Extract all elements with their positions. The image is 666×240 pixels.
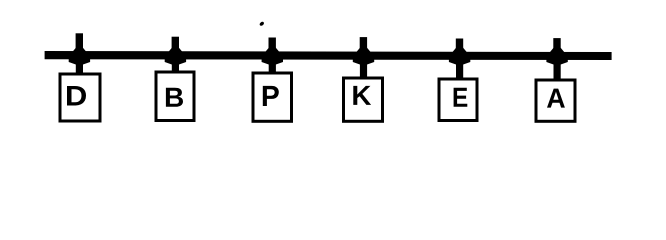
timeline diagram (0, 0, 666, 171)
node E: box (439, 79, 477, 121)
node P: stem (269, 57, 276, 74)
node D: box (60, 74, 100, 121)
node E: tick (456, 39, 463, 60)
node D: tick (76, 33, 83, 59)
node D: stem (76, 57, 83, 75)
node A: stem (554, 57, 561, 80)
node P: tick (269, 38, 276, 60)
node K: arrowhead (353, 44, 374, 65)
node A: tick (553, 38, 560, 59)
node P: arrowhead (262, 44, 283, 65)
node B: label (166, 88, 183, 107)
node A: box (536, 80, 575, 121)
node D: arrowhead (69, 44, 90, 65)
node K: tick (360, 37, 367, 59)
node E: label (454, 88, 468, 107)
node P: label (263, 86, 279, 106)
node A: arrowhead (546, 44, 567, 65)
wire: main timeline (45, 51, 612, 60)
stray ink dot (259, 21, 265, 27)
node B: arrowhead (165, 44, 186, 65)
node K: label (353, 86, 371, 105)
node A: label (547, 89, 565, 108)
node K: box (344, 78, 383, 121)
node D: label (67, 86, 86, 106)
node K: stem (360, 57, 367, 78)
node B: stem (172, 57, 179, 73)
node E: arrowhead (449, 44, 470, 65)
node E: stem (456, 57, 463, 79)
node B: box (156, 72, 194, 121)
node B: tick (172, 37, 179, 60)
node P: box (253, 73, 292, 121)
